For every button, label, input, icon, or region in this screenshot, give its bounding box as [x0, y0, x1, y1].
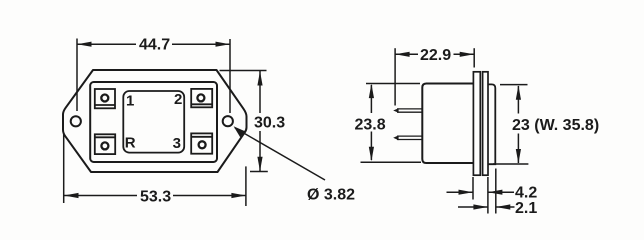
pin 2 [397, 136, 423, 139]
arrow 23 top [516, 85, 521, 100]
svg-text:44.7: 44.7 [139, 37, 170, 54]
svg-text:3: 3 [173, 135, 181, 152]
relay body (side view) [422, 84, 473, 164]
arrow 22.9 right [460, 52, 475, 57]
leader line dia 3.82 [235, 128, 325, 180]
dim 23.8 ext bottom [361, 161, 422, 163]
arrow 2.1 left [473, 204, 488, 209]
dimension graphics, thinner strokes [64, 39, 529, 214]
terminal labels [125, 91, 183, 152]
dim 22.9 dimension line [395, 53, 418, 55]
dim 23.8 ext top [366, 83, 420, 85]
arrow leader dia3.82 [234, 126, 245, 137]
dim 2.1 dimension line [458, 206, 488, 208]
dim 30.3 extension line top [220, 70, 267, 72]
arrow 2.1 right [496, 204, 511, 209]
svg-text:22.9: 22.9 [420, 47, 451, 64]
arrow 22.9 left [395, 52, 410, 57]
arrow 53.3 right [231, 193, 246, 198]
central cover rectangle [123, 91, 184, 153]
arrow 53.3 left [64, 193, 79, 198]
terminal R square (bottom-left) [95, 134, 115, 154]
flange plate front [473, 72, 480, 175]
dim 4.2 ext left [472, 177, 474, 200]
side view solid parts [397, 72, 495, 175]
mounting hole left [71, 116, 81, 126]
svg-text:23.8: 23.8 [355, 117, 386, 134]
dim 53.3 dimension line [64, 195, 137, 197]
body rectangle (front view) [90, 82, 217, 162]
dim 44.7 extension line left [76, 39, 78, 112]
arrow 30.3 bottom [257, 157, 262, 172]
dim 30.3 dimension line [259, 71, 261, 113]
dim 53.3 extension line right [245, 166, 247, 206]
arrow 23.8 bottom [369, 147, 374, 162]
arrow 4.2 right [488, 190, 503, 195]
terminal 1 square (top-left) [95, 89, 115, 108]
dim 4.2 / 2.1 shared ext [487, 177, 489, 214]
dim 23 ext bottom [493, 163, 528, 165]
back plate [488, 84, 496, 164]
arrow 23 bottom [516, 149, 521, 164]
arrow 30.3 top [257, 71, 262, 86]
dim 44.7 dimension line [77, 43, 136, 45]
svg-text:2.1: 2.1 [515, 200, 537, 217]
svg-text:30.3: 30.3 [254, 115, 285, 132]
dim 2.1 ext right [495, 169, 497, 214]
svg-text:Ø 3.82: Ø 3.82 [307, 186, 355, 203]
pin 2 tip [393, 135, 398, 140]
dim 23 ext top [500, 84, 528, 86]
mounting hole right [223, 116, 233, 126]
svg-text:R: R [125, 135, 136, 152]
dim 44.7 extension line right [229, 39, 231, 113]
side view: dim 22.9 ext left [394, 48, 396, 105]
terminal 3 square (bottom-right) [191, 133, 212, 153]
dim 23.8 dimension line [370, 85, 372, 113]
dim 30.3 extension line bottom [250, 171, 268, 173]
pin 1 [397, 109, 423, 112]
flange plate rear [483, 72, 488, 175]
dim 4.2 dimension line [447, 191, 474, 193]
svg-text:1: 1 [126, 92, 134, 109]
svg-text:2: 2 [174, 91, 182, 108]
dim 23 dimension line [517, 86, 519, 114]
arrowheads [64, 42, 521, 210]
svg-text:23 (W. 35.8): 23 (W. 35.8) [512, 117, 599, 134]
terminal 2 square (top-right) [191, 89, 212, 107]
arrow 44.7 right [216, 42, 231, 47]
side view: dim 22.9 ext right [473, 48, 475, 67]
pin 1 tip [393, 108, 398, 113]
svg-text:53.3: 53.3 [140, 188, 171, 205]
dim 53.3 extension line left [63, 134, 65, 203]
arrow 44.7 left [77, 42, 92, 47]
arrow 23.8 top [369, 84, 374, 99]
arrow 4.2 left [459, 190, 474, 195]
flange outline (front view hexagon) [63, 70, 247, 172]
